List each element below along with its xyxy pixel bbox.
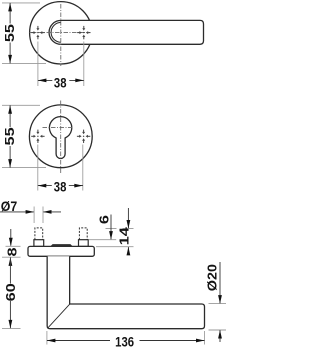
screw boss right bbox=[79, 240, 89, 247]
dim 6: ticks and line bbox=[106, 228, 117, 230]
horizontal centerline rose 1 bbox=[30, 32, 91, 34]
dim 136: extension lines bbox=[46, 331, 48, 345]
screw hole mark left (rose 2) bbox=[31, 130, 44, 143]
rose circle (key rose) bbox=[29, 105, 92, 168]
dim 14: ticks, line, arrows bbox=[123, 228, 134, 230]
screw boss left bbox=[34, 240, 44, 247]
svg-text:55: 55 bbox=[3, 24, 17, 42]
svg-text:55: 55 bbox=[3, 127, 17, 145]
svg-text:38: 38 bbox=[54, 74, 67, 90]
vertical centerline rose 2 bbox=[60, 101, 62, 174]
dim 8: arrow, ticks, text bbox=[10, 229, 12, 246]
lever bar with round neck cap bbox=[49, 20, 203, 44]
spindle hub bump bbox=[50, 244, 74, 247]
dim O7 extension lines bbox=[33, 207, 35, 224]
svg-text:6: 6 bbox=[98, 215, 112, 224]
dim 38 (rose 1) extension lines bbox=[37, 42, 39, 87]
dim 55 (rose 2) dimension line bbox=[9, 105, 11, 167]
rose plate (side view) bbox=[28, 246, 94, 256]
svg-text:136: 136 bbox=[115, 333, 134, 349]
miter line of handle bend bbox=[48, 304, 70, 328]
dim text O7 bbox=[0, 199, 19, 211]
dim 136 dimension line bbox=[47, 340, 110, 342]
dim 38 (rose 1) dimension line bbox=[38, 79, 84, 81]
horizontal centerline cylinder bbox=[43, 127, 74, 129]
screw hole mark left (rose 1) bbox=[31, 26, 44, 39]
screw hole mark right (rose 2) bbox=[77, 130, 90, 143]
rose circle (top view) bbox=[30, 2, 92, 64]
dim O7 leader and arrows bbox=[0, 211, 34, 213]
euro profile cylinder cutout bbox=[49, 117, 71, 159]
screw hole mark right (rose 1) bbox=[77, 26, 90, 39]
dim 55 (rose 2) extension lines bbox=[2, 104, 40, 106]
screw hidden part right (dashed) bbox=[79, 228, 87, 240]
svg-text:Ø7: Ø7 bbox=[1, 198, 17, 214]
svg-text:38: 38 bbox=[54, 178, 67, 194]
svg-text:Ø20: Ø20 bbox=[205, 264, 219, 291]
dim 55 (rose 1) extension lines bbox=[2, 2, 40, 4]
vertical centerline rose 1 bbox=[60, 4, 62, 66]
svg-text:14: 14 bbox=[118, 227, 132, 245]
dim 38 (shared) dimension line bbox=[38, 185, 83, 187]
dim 60: line, arrows, ticks bbox=[9, 257, 13, 266]
dim 55 (rose 1) dimension line bbox=[9, 3, 11, 64]
svg-text:8: 8 bbox=[6, 247, 20, 256]
svg-text:60: 60 bbox=[5, 283, 19, 301]
dim 38 (shared, below key rose) extension lines bbox=[37, 145, 39, 191]
dim O20: ticks, line segments, arrows bbox=[209, 303, 227, 305]
handle body (side view) bbox=[47, 256, 204, 328]
neck inner arc bbox=[51, 22, 61, 42]
screw hidden part left (dashed) bbox=[35, 228, 43, 240]
